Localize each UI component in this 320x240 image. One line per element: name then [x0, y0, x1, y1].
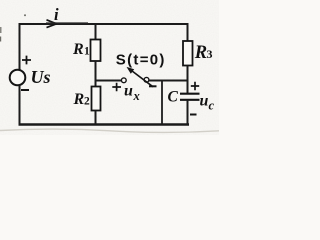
svg-text:u: u	[200, 93, 209, 110]
svg-text:R: R	[72, 41, 84, 58]
wire R1 bottom to middle node	[95, 61, 97, 81]
svg-text:C: C	[168, 89, 179, 106]
resistor R1	[91, 40, 101, 62]
switch left contact circle	[121, 78, 126, 83]
svg-text:2: 2	[84, 96, 90, 108]
svg-text:R: R	[194, 43, 207, 63]
switch blade S	[129, 68, 153, 86]
minus sign of ux	[149, 85, 157, 87]
scan specks left edge	[0, 27, 2, 42]
svg-text:Us: Us	[31, 67, 51, 87]
resistor R3	[183, 41, 193, 66]
plus sign of ux	[112, 83, 121, 92]
wire bottom	[19, 123, 190, 125]
wire middle left (node to switch left contact)	[95, 80, 122, 82]
scan speck near top-left corner	[24, 14, 26, 16]
wire vertical drop middle to bottom	[161, 81, 163, 125]
plus sign of Us	[22, 56, 31, 65]
wire capacitor bottom to bottom wire	[187, 100, 189, 125]
plus sign of uc	[191, 82, 199, 90]
svg-text:u: u	[124, 83, 133, 100]
switch right contact circle	[144, 77, 149, 82]
voltage source Us	[10, 70, 26, 86]
svg-text:R: R	[73, 91, 85, 108]
svg-text:3: 3	[207, 47, 213, 61]
svg-text:1: 1	[84, 46, 90, 58]
capacitor C bottom plate	[180, 99, 200, 101]
wire R2 bottom to bottom wire	[95, 111, 97, 125]
svg-text:S(t=0): S(t=0)	[116, 51, 166, 68]
capacitor C top plate	[180, 93, 200, 95]
svg-text:i: i	[54, 5, 59, 24]
svg-text:c: c	[209, 98, 215, 112]
scan smudge bottom edge	[0, 129, 219, 132]
current arrow i on top wire	[47, 20, 57, 28]
wire R1 top stub	[95, 24, 97, 40]
wire R3 top stub	[187, 24, 189, 41]
wire top (node between Us+ and R1/R3 tops)	[19, 23, 189, 25]
wire R2 top stub	[95, 80, 97, 87]
wire middle right (switch right contact to R3/C branch)	[149, 80, 189, 82]
wire left upper (Us+ to top wire)	[19, 23, 21, 70]
wire left lower (Us- to bottom wire)	[19, 86, 21, 126]
current arrow tail overlay	[46, 22, 88, 24]
switch blade arrowhead	[127, 67, 135, 74]
minus sign of uc	[190, 114, 197, 116]
minus sign of Us	[21, 89, 29, 91]
resistor R2	[92, 87, 101, 111]
wire R3 bottom to capacitor top plate	[187, 66, 189, 94]
svg-text:x: x	[133, 89, 140, 103]
